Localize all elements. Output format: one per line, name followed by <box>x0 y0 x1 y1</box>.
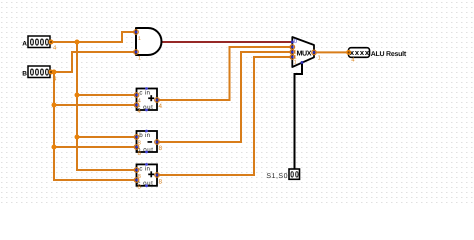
svg-text:1: 1 <box>138 36 141 42</box>
junction A to adder1 <box>75 93 80 98</box>
svg-text:S1,S0: S1,S0 <box>266 173 288 180</box>
MUX U2 <box>290 37 316 67</box>
svg-text:0: 0 <box>290 169 294 179</box>
svg-text:0: 0 <box>30 67 35 78</box>
svg-text:1: 1 <box>294 59 297 65</box>
wire A vertical bus <box>77 42 137 170</box>
svg-text:8: 8 <box>159 179 163 186</box>
svg-text:c in: c in <box>139 90 150 97</box>
svg-text:A: A <box>22 40 27 47</box>
wire B vertical bus <box>54 72 137 180</box>
subtractor subcircuit box2 <box>134 130 159 154</box>
svg-text:0: 0 <box>30 37 35 48</box>
svg-text:8: 8 <box>159 145 163 152</box>
svg-text:0: 0 <box>40 67 45 78</box>
wire select from MUX to S pin <box>295 63 303 170</box>
svg-text:0: 0 <box>35 67 40 78</box>
svg-text:0: 0 <box>35 37 40 48</box>
junction B-wire at pin <box>52 70 57 75</box>
svg-text:0: 0 <box>40 37 45 48</box>
svg-text:4: 4 <box>159 103 163 110</box>
svg-text:MUX: MUX <box>296 49 311 57</box>
junction A-wire <box>75 40 80 45</box>
wire subtractor output to MUX input2 <box>157 52 293 142</box>
adder subcircuit box3 <box>134 163 159 187</box>
svg-text:ALU Result: ALU Result <box>371 50 407 58</box>
svg-text:1: 1 <box>138 56 141 62</box>
junction B to subtractor <box>52 145 57 150</box>
output pin ALU Result <box>346 48 407 58</box>
wire MUX output to result pin <box>314 51 349 53</box>
AND gate U1 <box>134 28 162 55</box>
input pin S1,S0 <box>266 169 299 180</box>
input pin A <box>22 36 53 48</box>
svg-text:0: 0 <box>295 169 299 179</box>
junction A to subtractor <box>75 135 80 140</box>
svg-text:B: B <box>22 70 27 77</box>
input pin B <box>22 66 53 78</box>
wire adder1 output to MUX input1 <box>157 47 293 100</box>
wire AND output to MUX input0 (error red) <box>162 41 293 43</box>
wire adder2 output to MUX input3 <box>157 57 293 175</box>
wire A horizontal to gate <box>51 32 136 42</box>
svg-text:c in: c in <box>139 165 150 172</box>
svg-text:b in: b in <box>139 132 150 139</box>
wire B horizontal to gate <box>51 52 136 72</box>
adder subcircuit box1 <box>134 87 159 111</box>
junction B to adder1 <box>52 103 57 108</box>
